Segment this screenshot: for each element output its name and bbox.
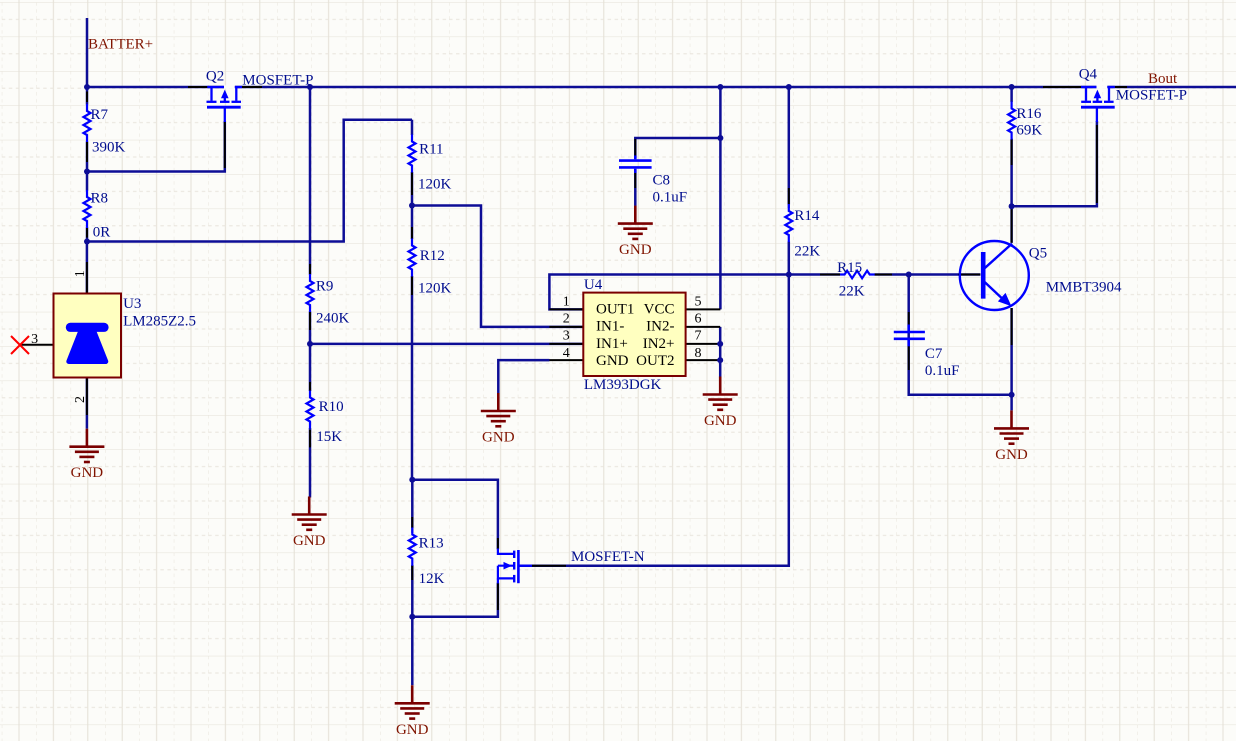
svg-text:0R: 0R	[93, 225, 111, 241]
transistor Q5 MMBT3904	[960, 241, 1029, 310]
wire U3 pin1	[86, 242, 89, 294]
svg-text:5: 5	[695, 294, 702, 309]
wire R11 R12 middle	[411, 172, 414, 239]
resistor R13 12K	[409, 528, 416, 566]
wire R16 column upper	[1010, 87, 1013, 102]
wire black pin segment R7 bottom	[86, 139, 88, 162]
junction at R16 bottom Q4 gate	[1009, 203, 1015, 209]
wire black pin segment Q2 gate vertical	[224, 122, 226, 168]
svg-text:MMBT3904: MMBT3904	[1046, 280, 1122, 296]
svg-text:22K: 22K	[794, 244, 820, 260]
pin U4 pin6	[686, 326, 721, 328]
svg-text:Bout: Bout	[1148, 71, 1178, 87]
wire Q5 emitter to GND	[1010, 308, 1013, 410]
junction at VCC column top	[717, 84, 723, 90]
svg-text:6: 6	[695, 312, 702, 327]
IC U4 LM393DGK body	[583, 293, 685, 376]
svg-text:GND: GND	[293, 533, 326, 549]
wire R15 row right	[875, 273, 909, 276]
svg-text:120K: 120K	[418, 177, 452, 193]
wire black pin segment R13 top	[411, 517, 413, 533]
svg-text:0.1uF: 0.1uF	[925, 363, 960, 379]
wire black pin segment R15 right	[875, 274, 893, 276]
ground GND under U4 pin4	[481, 393, 516, 446]
pin U3 pin3	[20, 344, 54, 346]
junction at R16 top	[1009, 84, 1015, 90]
junction at Q5 emitter C7	[1009, 392, 1015, 398]
junction at R13 top	[409, 477, 415, 483]
svg-text:VCC: VCC	[644, 301, 675, 317]
wire IN1+ net	[310, 343, 583, 346]
wire BATTER+ vertical	[86, 18, 89, 87]
wire R15 row left	[789, 273, 840, 276]
resistor R11 120K	[409, 135, 416, 173]
no-connect X on U3 pin3	[11, 336, 29, 354]
wire black pin segment N-FET source	[497, 583, 499, 610]
svg-text:R13: R13	[419, 536, 444, 552]
junction at R14 bottom OUT1	[786, 272, 792, 278]
svg-text:390K: 390K	[92, 140, 126, 156]
wire R10 column upper	[309, 344, 312, 391]
wire R12 column lower	[411, 276, 414, 480]
junction at R9 top	[307, 84, 313, 90]
wire U3 pin2	[86, 378, 89, 429]
svg-text:R10: R10	[319, 399, 344, 415]
wire R8 column lower	[86, 228, 89, 242]
resistor R16 69K	[1008, 102, 1015, 140]
wire black pin segment R12 bottom	[411, 276, 413, 295]
ground GND under U3	[69, 429, 104, 482]
svg-text:R8: R8	[91, 191, 109, 207]
svg-text:15K: 15K	[316, 429, 342, 445]
wire R14 column upper	[788, 87, 791, 205]
pin U4 pin3	[549, 343, 583, 345]
wire Q2 gate	[87, 121, 225, 172]
wire black pin segment U4 pin4 GND wire	[505, 359, 549, 361]
wire R14 column lower	[788, 242, 791, 275]
wire black pin segment N-FET drain	[497, 538, 499, 549]
svg-text:MOSFET-P: MOSFET-P	[1116, 88, 1187, 104]
wire R10 column lower	[309, 428, 312, 498]
svg-text:3: 3	[563, 329, 570, 344]
svg-text:IN1-: IN1-	[596, 319, 624, 335]
svg-text:R16: R16	[1016, 106, 1042, 122]
svg-text:R11: R11	[419, 142, 443, 158]
svg-text:BATTER+: BATTER+	[88, 37, 153, 53]
wire main rail MOSFET-P net	[87, 86, 1236, 89]
wire VCC column	[719, 87, 722, 309]
wire R13 column lower	[411, 565, 414, 685]
svg-text:C7: C7	[925, 346, 943, 362]
wire C7 column	[909, 275, 1012, 395]
pin U4 pin2	[549, 326, 583, 328]
svg-text:4: 4	[563, 346, 570, 361]
svg-text:U3: U3	[123, 296, 141, 312]
wire black pin segment C7 bottom	[908, 346, 910, 370]
junction at C7 top	[906, 272, 912, 278]
svg-text:GND: GND	[71, 465, 104, 481]
svg-text:12K: 12K	[419, 571, 445, 587]
svg-text:U4: U4	[584, 277, 603, 293]
wire N-FET drain	[412, 480, 498, 550]
wire R16 column lower	[1010, 139, 1013, 206]
svg-text:2: 2	[73, 396, 88, 403]
svg-text:GND: GND	[995, 447, 1028, 463]
svg-text:R9: R9	[316, 279, 334, 295]
wire 0R net to R11	[87, 120, 412, 242]
wire black pin segment U3 pin1	[86, 262, 88, 294]
capacitor C7 0.1uF	[894, 325, 925, 347]
svg-text:8: 8	[695, 346, 702, 361]
svg-text:C8: C8	[653, 173, 671, 189]
wire black pin segment R13 bottom	[411, 566, 413, 580]
wire black pin segment R15 left	[820, 274, 840, 276]
resistor R12 120K	[409, 239, 416, 277]
resistor R7 390K	[84, 104, 91, 142]
pin U4 pin4	[549, 359, 583, 361]
svg-text:Q2: Q2	[206, 69, 224, 85]
svg-text:7: 7	[695, 329, 702, 344]
wire R11 column upper	[411, 120, 414, 135]
wire black pin segment R8 bottom	[86, 224, 88, 238]
wire R7 column lower	[86, 142, 89, 172]
wire black pin segment R16 bottom	[1011, 138, 1013, 165]
svg-text:120K: 120K	[418, 281, 452, 297]
pin U4 pin7	[686, 343, 721, 345]
wire black pin segment R9 top	[309, 264, 311, 279]
wire black pin segment N-FET gate	[532, 565, 566, 567]
svg-text:MOSFET-P: MOSFET-P	[242, 73, 313, 89]
svg-text:R14: R14	[794, 208, 820, 224]
wire black pin segment rail left of Q4	[1043, 86, 1081, 88]
svg-text:Q5: Q5	[1029, 246, 1047, 262]
wire black pin segment R9 bottom	[309, 306, 311, 330]
wire OUT1 net	[549, 275, 788, 310]
wire black pin segment R7 top	[86, 92, 88, 103]
ground GND under U4 pins 6-8	[703, 377, 738, 430]
junction at BATTER+ rail	[84, 84, 90, 90]
transistor Q4 MOSFET-P	[1081, 85, 1115, 122]
wire C8 to GND	[634, 170, 637, 206]
wire C8 branch	[635, 138, 720, 158]
IC U3 LM285Z2.5 body	[54, 294, 122, 378]
ground GND under R10	[292, 497, 327, 550]
svg-text:MOSFET-N: MOSFET-N	[571, 549, 645, 565]
resistor R15 22K horizontal	[840, 271, 875, 279]
wire black pin segment C7 top	[908, 312, 910, 325]
wire black pin segment rail left of Q2	[188, 86, 207, 88]
wire black pin segment U3 pin2	[86, 378, 88, 416]
junction at R14 top	[786, 84, 792, 90]
svg-text:Q4: Q4	[1079, 67, 1098, 83]
pin U4 pin5	[686, 308, 721, 310]
junction at R8 bottom 0R net	[84, 239, 90, 245]
wire black pin segment Q5 emitter	[1011, 308, 1013, 345]
junction at U4 pin8	[717, 357, 723, 363]
svg-text:240K: 240K	[316, 311, 350, 327]
wire R8 column upper	[86, 172, 89, 191]
wire R12 top to IN1-	[412, 206, 583, 327]
svg-text:IN1+: IN1+	[596, 336, 628, 352]
wire R9 column upper	[309, 87, 312, 275]
junction at R11 R12	[409, 203, 415, 209]
wire N-FET source to R13	[412, 583, 498, 617]
wire black pin segment R12 top	[411, 227, 413, 244]
wire MOSFET-N gate net	[518, 275, 789, 566]
wire black pin segment R14 top	[788, 188, 790, 208]
wire R7 column upper	[86, 87, 89, 105]
junction at R7 R8 Q2 gate	[84, 169, 90, 175]
svg-text:GND: GND	[482, 430, 515, 446]
wire black pin segment Q5 collector	[1011, 208, 1013, 243]
svg-text:0.1uF: 0.1uF	[653, 190, 688, 206]
svg-text:R7: R7	[91, 107, 109, 123]
svg-text:3: 3	[31, 332, 38, 347]
svg-text:69K: 69K	[1016, 123, 1042, 139]
ground GND under C8	[618, 206, 653, 259]
junction at U4 pin7	[717, 341, 723, 347]
wire black pin segment C8 top	[634, 139, 636, 156]
pin U4 pin1	[549, 308, 583, 310]
wire Q5 base	[909, 273, 981, 276]
resistor R9 240K	[307, 274, 314, 312]
ground GND under R13	[395, 685, 430, 738]
wire U4 pin4 to GND	[498, 360, 549, 393]
svg-text:IN2-: IN2-	[646, 319, 674, 335]
svg-text:LM285Z2.5: LM285Z2.5	[123, 314, 196, 330]
wire R13 column upper	[411, 480, 414, 528]
wire black pin segment Q5 base	[958, 274, 980, 276]
svg-text:22K: 22K	[839, 284, 865, 300]
svg-text:GND: GND	[704, 413, 737, 429]
capacitor C8 0.1uF	[619, 156, 652, 173]
wire Q5 collector	[1010, 206, 1013, 243]
svg-text:GND: GND	[596, 353, 629, 369]
transistor N-MOSFET (MOSFET-N)	[498, 549, 532, 584]
svg-text:1: 1	[73, 270, 88, 277]
wire Q4 gate	[1012, 121, 1097, 206]
wire black pin segment rail right of Q4	[1115, 86, 1127, 88]
svg-text:OUT2: OUT2	[636, 353, 674, 369]
svg-text:OUT1: OUT1	[596, 301, 634, 317]
resistor R10 15K	[307, 391, 314, 429]
ground GND under Q5	[994, 410, 1029, 463]
svg-text:GND: GND	[619, 242, 652, 258]
junction at R9 R10 IN1+	[307, 341, 313, 347]
wire black pin segment Q4 gate vertical	[1096, 125, 1098, 203]
resistor R8 0R	[84, 190, 91, 228]
svg-text:GND: GND	[396, 722, 429, 738]
wire black pin segment R11 bottom	[411, 173, 413, 196]
wire R9 column lower	[309, 312, 312, 344]
svg-text:1: 1	[563, 294, 570, 309]
pin U4 pin8	[686, 359, 721, 361]
wire U4 pins 6 7 8 tie	[719, 327, 722, 378]
svg-text:2: 2	[563, 312, 570, 327]
svg-text:R12: R12	[420, 248, 445, 264]
junction at R13 bottom	[409, 614, 415, 620]
resistor R14 22K	[785, 204, 792, 242]
svg-text:R15: R15	[837, 260, 862, 276]
svg-text:LM393DGK: LM393DGK	[584, 377, 662, 393]
wire black pin segment rail right of Q2	[242, 86, 262, 88]
svg-text:IN2+: IN2+	[643, 336, 675, 352]
wire black pin segment C8 bottom	[634, 173, 636, 188]
transistor Q2 MOSFET-P	[207, 85, 243, 122]
wire black pin segment R10 bottom	[309, 430, 311, 447]
wire black pin segment R10 top	[309, 382, 311, 397]
junction at C8 branch	[717, 135, 723, 141]
